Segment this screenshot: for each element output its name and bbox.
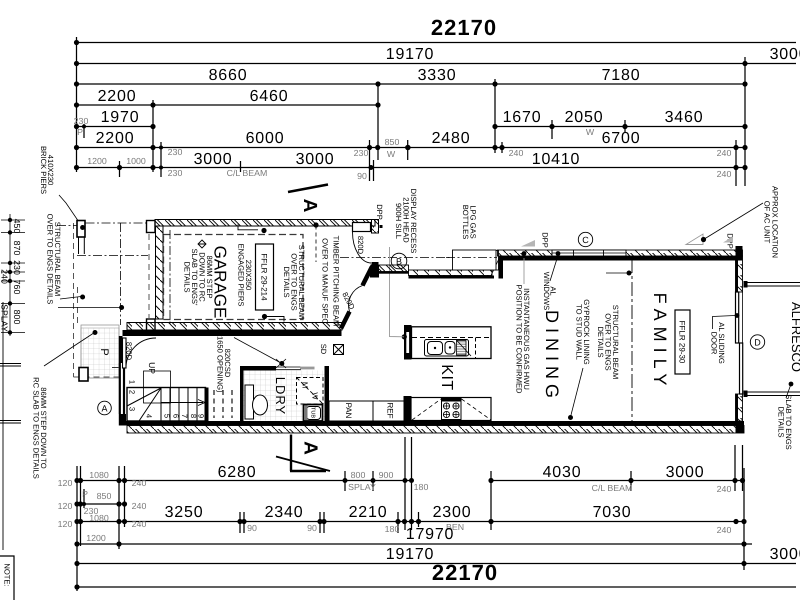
fridge wall stub xyxy=(404,397,411,424)
garage interior dashed outline xyxy=(164,235,304,320)
winder treads xyxy=(127,388,161,406)
svg-text:1000: 1000 xyxy=(126,156,146,166)
junction dots bottom dimension block xyxy=(74,478,746,590)
fridge dashed space xyxy=(413,400,430,419)
ldry left wall xyxy=(240,366,244,421)
svg-text:SD: SD xyxy=(319,344,328,355)
svg-text:OF AC UNIT: OF AC UNIT xyxy=(763,201,772,244)
svg-text:TO STUD WALL: TO STUD WALL xyxy=(575,304,584,360)
svg-text:800: 800 xyxy=(12,310,22,325)
WC cistern xyxy=(245,385,254,419)
svg-text:2200: 2200 xyxy=(98,88,137,105)
front window dining xyxy=(552,250,626,256)
svg-text:3000: 3000 xyxy=(296,151,335,168)
svg-text:RC SLAB TO ENGS DETAILS: RC SLAB TO ENGS DETAILS xyxy=(32,377,41,479)
wall below door xyxy=(736,394,743,421)
svg-text:120: 120 xyxy=(58,478,73,488)
dim line 1970 xyxy=(77,126,154,128)
dim line 1670/2050/3460 xyxy=(495,126,745,128)
stair numbers xyxy=(128,380,206,418)
svg-text:(1650 OPENING): (1650 OPENING) xyxy=(216,333,225,393)
dashed treads beyond cut xyxy=(214,390,232,418)
svg-text:4030: 4030 xyxy=(543,464,582,481)
svg-text:120: 120 xyxy=(58,519,73,529)
C circle xyxy=(578,232,592,246)
svg-text:BOTTLES: BOTTLES xyxy=(461,205,470,240)
island bench xyxy=(412,327,492,359)
porch dots xyxy=(80,225,85,230)
centerline dash-dot over LPG xyxy=(446,257,497,259)
entry 820D door arc xyxy=(126,338,156,368)
svg-text:230: 230 xyxy=(168,168,183,178)
entry/garage bottom inner wall black band xyxy=(123,330,342,336)
lower bench xyxy=(411,398,491,421)
svg-text:KIT: KIT xyxy=(438,364,455,390)
beam bracket bottom xyxy=(266,317,284,322)
A circle xyxy=(98,401,112,415)
svg-text:240: 240 xyxy=(717,484,732,494)
svg-text:P: P xyxy=(77,127,83,137)
leader 820CSD xyxy=(234,338,281,364)
svg-text:3250: 3250 xyxy=(165,504,204,521)
svg-text:9: 9 xyxy=(197,414,206,418)
timber beam leader xyxy=(315,226,317,263)
svg-text:WINDOWS: WINDOWS xyxy=(542,272,551,310)
svg-text:450: 450 xyxy=(12,219,22,234)
svg-text:5: 5 xyxy=(163,414,172,418)
svg-text:240: 240 xyxy=(717,525,732,535)
FFLR 29-30 box xyxy=(675,310,690,374)
svg-text:900H SILL: 900H SILL xyxy=(394,203,403,239)
dim line 2200/6000/2480/6700 xyxy=(77,147,746,149)
family top-right corner xyxy=(736,246,743,260)
LPG bottle recess xyxy=(453,250,497,270)
svg-text:6280: 6280 xyxy=(218,464,257,481)
beam centerline xyxy=(631,259,633,421)
svg-text:DETAILS: DETAILS xyxy=(777,406,786,437)
svg-text:120: 120 xyxy=(58,501,73,511)
svg-text:6: 6 xyxy=(172,414,181,418)
garage front pier top xyxy=(147,221,156,233)
svg-text:DINING: DINING xyxy=(542,310,562,403)
garage top wall xyxy=(123,220,380,337)
svg-text:REF: REF xyxy=(386,403,395,419)
svg-text:DETAILS: DETAILS xyxy=(596,326,605,357)
svg-text:1970: 1970 xyxy=(101,109,140,126)
svg-text:22170: 22170 xyxy=(432,560,498,585)
svg-text:1: 1 xyxy=(128,380,137,384)
step diamond symbol xyxy=(198,240,206,248)
svg-text:7180: 7180 xyxy=(602,67,641,84)
svg-text:B: B xyxy=(396,257,402,267)
svg-text:TIMBER PITCHING BEAM: TIMBER PITCHING BEAM xyxy=(332,236,341,327)
garage front pier bottom xyxy=(147,319,156,331)
dim line 19170/3000 xyxy=(77,63,797,65)
svg-text:1200: 1200 xyxy=(87,156,107,166)
display recess wall band xyxy=(371,265,409,272)
svg-text:W: W xyxy=(311,392,320,400)
svg-text:LDRY: LDRY xyxy=(273,377,288,415)
beam bracket top xyxy=(238,225,258,230)
garage 820D door arc xyxy=(353,232,372,263)
svg-text:230: 230 xyxy=(12,260,22,275)
svg-text:180: 180 xyxy=(385,524,400,534)
svg-text:820D: 820D xyxy=(356,236,365,255)
svg-text:230: 230 xyxy=(168,147,183,157)
alfresco slab leader xyxy=(789,382,794,387)
kitchen front wall corner block xyxy=(370,266,379,278)
svg-text:240: 240 xyxy=(717,148,732,158)
entry 820D door leaf xyxy=(123,338,127,368)
svg-text:UP: UP xyxy=(147,362,157,374)
svg-text:DETAILS: DETAILS xyxy=(282,266,291,297)
laundry tub xyxy=(304,405,323,422)
kitchen front wall band xyxy=(409,270,493,276)
dim line 19170/3000 bottom xyxy=(77,563,796,565)
dim line 1200/17970 xyxy=(77,543,752,545)
svg-text:W: W xyxy=(586,127,595,137)
svg-text:240: 240 xyxy=(509,148,524,158)
svg-text:DPP: DPP xyxy=(375,204,384,220)
svg-text:2050: 2050 xyxy=(565,109,604,126)
svg-text:C/L BEAM: C/L BEAM xyxy=(227,168,268,178)
laundry tiles xyxy=(244,371,325,421)
gyprock leader dot xyxy=(568,415,573,420)
bench dashed diagonals xyxy=(412,399,491,420)
garage splay wall xyxy=(341,312,350,329)
garage right wall above door xyxy=(372,220,379,234)
porch pier bottom left xyxy=(79,368,88,382)
svg-text:FFLR 29-30: FFLR 29-30 xyxy=(678,321,687,364)
centerline dash-dot garage veneer xyxy=(169,230,171,324)
svg-text:180: 180 xyxy=(414,482,429,492)
svg-text:SPLAY: SPLAY xyxy=(0,304,10,332)
svg-text:3: 3 xyxy=(128,407,137,411)
svg-text:19170: 19170 xyxy=(386,546,435,563)
AC unit xyxy=(686,234,703,245)
porch slab xyxy=(79,325,119,381)
stair side wall stub xyxy=(205,388,209,422)
ldry top wall solid xyxy=(240,366,276,371)
dim line 3250/2340/2210/2300/7030 xyxy=(77,521,744,523)
window dots xyxy=(522,251,527,256)
left top dim strip xyxy=(1,214,25,336)
centerline dash-dot kitchen xyxy=(340,257,525,259)
svg-text:C/L BEAM: C/L BEAM xyxy=(592,483,633,493)
drainer xyxy=(457,341,467,356)
svg-text:240: 240 xyxy=(132,501,147,511)
svg-text:ENGAGED PIERS: ENGAGED PIERS xyxy=(237,244,246,307)
svg-text:10410: 10410 xyxy=(532,151,581,168)
svg-text:22170: 22170 xyxy=(431,15,497,40)
svg-text:6460: 6460 xyxy=(250,88,289,105)
dim line 8660/3330/7180 xyxy=(77,83,746,85)
section marker A top xyxy=(288,185,328,193)
svg-text:OVER TO ENGS DETAILS: OVER TO ENGS DETAILS xyxy=(46,214,55,305)
island bench end cap xyxy=(404,325,412,360)
svg-text:4: 4 xyxy=(145,414,154,418)
svg-text:17970: 17970 xyxy=(406,526,455,543)
svg-text:BRICK PIERS: BRICK PIERS xyxy=(39,146,48,194)
svg-text:1200: 1200 xyxy=(86,533,106,543)
dim line 22170 top xyxy=(77,42,797,44)
section marker A bottom xyxy=(290,435,292,472)
witness verticals bottom block xyxy=(76,466,78,591)
svg-text:1080: 1080 xyxy=(89,513,109,523)
svg-text:870: 870 xyxy=(12,241,22,256)
witness verticals top block xyxy=(76,37,78,172)
dining/family front wall band xyxy=(498,250,743,256)
dim line 2200/6460 xyxy=(77,104,381,106)
step corner to dining wall xyxy=(490,251,499,271)
svg-text:240: 240 xyxy=(717,169,732,179)
svg-text:19170: 19170 xyxy=(386,46,435,63)
dim line 3000/3000/10410 xyxy=(77,167,746,169)
svg-text:8660: 8660 xyxy=(209,67,248,84)
svg-text:90: 90 xyxy=(247,523,257,533)
centerline dash-dot left xyxy=(57,223,525,325)
bottom-right corner xyxy=(736,421,745,433)
svg-text:NOTE:: NOTE: xyxy=(3,563,12,586)
ldry right wall xyxy=(325,366,330,421)
splay door 820D arc xyxy=(349,286,363,312)
DPP flag dining xyxy=(521,240,535,247)
M/W appliance dashed box xyxy=(297,378,324,405)
svg-text:2300: 2300 xyxy=(433,504,472,521)
beam leader dot xyxy=(627,271,632,276)
sliding door xyxy=(742,292,744,394)
hall west wall cavity leaves xyxy=(119,363,121,414)
hall wall bottom corner xyxy=(119,414,126,426)
sink unit xyxy=(425,340,469,357)
svg-text:D: D xyxy=(754,338,761,348)
dimension labels bottom block xyxy=(58,464,800,585)
garage right wall below door xyxy=(372,262,379,267)
svg-text:900: 900 xyxy=(379,470,394,480)
svg-text:1670: 1670 xyxy=(503,109,542,126)
svg-text:2200: 2200 xyxy=(96,130,135,147)
svg-text:230: 230 xyxy=(354,148,369,158)
ldry cavity slider pocket xyxy=(276,366,301,368)
svg-text:P: P xyxy=(82,489,88,499)
entry wall left of door xyxy=(112,336,156,426)
dimension labels top block xyxy=(74,15,800,181)
svg-text:DPP: DPP xyxy=(541,232,550,248)
ldry slider panel xyxy=(300,367,315,370)
island leader dot xyxy=(402,334,407,339)
display recess leader (gray) xyxy=(390,247,405,337)
svg-text:POSITION TO BE CONFIRMED: POSITION TO BE CONFIRMED xyxy=(515,285,524,395)
svg-text:240: 240 xyxy=(132,478,147,488)
svg-text:90: 90 xyxy=(357,171,367,181)
svg-text:DOOR: DOOR xyxy=(710,332,719,355)
svg-text:PAN: PAN xyxy=(344,403,353,419)
svg-text:240: 240 xyxy=(132,519,147,529)
svg-text:850: 850 xyxy=(385,137,400,147)
garage pier top-left xyxy=(77,221,85,238)
svg-text:W: W xyxy=(387,149,396,159)
boundary left lines xyxy=(0,302,21,550)
junction dots top dimension block xyxy=(74,40,748,170)
garage 820D door leaf (top right) xyxy=(353,223,371,232)
svg-text:7: 7 xyxy=(180,414,189,418)
svg-text:P: P xyxy=(98,348,110,355)
garage front (door) wall xyxy=(156,226,164,319)
stair landing outline xyxy=(144,371,171,403)
svg-text:3000: 3000 xyxy=(666,464,705,481)
svg-text:2210: 2210 xyxy=(349,504,388,521)
svg-text:7030: 7030 xyxy=(593,504,632,521)
svg-text:M: M xyxy=(301,382,310,388)
stair direction arrow xyxy=(161,402,203,404)
svg-text:A: A xyxy=(300,441,321,455)
svg-text:820D: 820D xyxy=(125,342,134,361)
svg-text:C: C xyxy=(582,235,589,245)
svg-text:3000: 3000 xyxy=(770,546,800,563)
svg-text:2: 2 xyxy=(128,390,137,394)
dim line 850 xyxy=(77,503,126,505)
bottom wall of house xyxy=(119,421,744,433)
B circle xyxy=(391,253,407,269)
svg-text:90: 90 xyxy=(307,523,317,533)
svg-text:2340: 2340 xyxy=(265,504,304,521)
svg-text:FAMILY: FAMILY xyxy=(650,293,670,392)
svg-text:3000: 3000 xyxy=(770,46,800,63)
centerline dash-dot porch vertical xyxy=(120,223,122,325)
svg-text:240: 240 xyxy=(0,269,10,284)
NOTE box xyxy=(0,556,14,600)
svg-text:SPLAY: SPLAY xyxy=(348,482,376,492)
svg-text:A: A xyxy=(299,199,320,213)
svg-text:3000: 3000 xyxy=(194,151,233,168)
dim line 6280 row xyxy=(77,480,412,482)
svg-text:3330: 3330 xyxy=(418,67,457,84)
svg-text:3460: 3460 xyxy=(665,109,704,126)
svg-text:6700: 6700 xyxy=(602,130,641,147)
FFLR 29-214 box xyxy=(256,244,274,310)
dim line 4030/3000 row xyxy=(491,480,745,482)
svg-text:2480: 2480 xyxy=(432,130,471,147)
svg-text:850: 850 xyxy=(97,491,112,501)
svg-text:ALFRESCO: ALFRESCO xyxy=(789,302,800,372)
svg-text:OVER TO MANUF SPEC: OVER TO MANUF SPEC xyxy=(321,238,330,324)
cooktop xyxy=(442,399,462,420)
svg-text:TUB: TUB xyxy=(310,407,316,418)
svg-text:230: 230 xyxy=(74,116,89,126)
label AL SLIDING DOOR xyxy=(713,316,736,330)
svg-text:800: 800 xyxy=(351,470,366,480)
svg-text:DETAILS: DETAILS xyxy=(183,261,192,292)
svg-text:760: 760 xyxy=(12,280,22,295)
stairs xyxy=(127,371,232,421)
svg-text:1080: 1080 xyxy=(89,470,109,480)
porch tiles xyxy=(81,328,325,421)
WC pan xyxy=(253,395,268,415)
svg-text:FFLR 29-214: FFLR 29-214 xyxy=(260,253,269,301)
svg-text:A: A xyxy=(101,404,107,414)
gas HWU leader xyxy=(523,258,525,284)
garage bottom wall hatch xyxy=(127,323,342,331)
driveway dashed outline xyxy=(74,223,150,377)
svg-text:6000: 6000 xyxy=(246,130,285,147)
dim line 22170 bottom xyxy=(77,586,796,588)
D circle xyxy=(750,335,764,349)
